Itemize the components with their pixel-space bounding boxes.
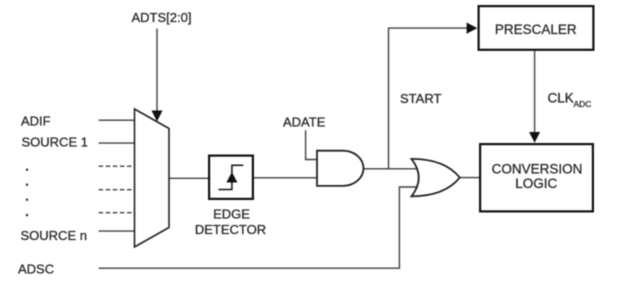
svg-text:SOURCE 1: SOURCE 1 bbox=[22, 135, 88, 150]
svg-text:ADSC: ADSC bbox=[18, 262, 54, 277]
svg-text:CLK: CLK bbox=[548, 90, 574, 105]
svg-text:EDGE: EDGE bbox=[213, 207, 250, 222]
svg-text:START: START bbox=[400, 91, 441, 106]
svg-text:SOURCE n: SOURCE n bbox=[21, 228, 87, 243]
svg-text:DETECTOR: DETECTOR bbox=[195, 222, 266, 237]
svg-text:LOGIC: LOGIC bbox=[515, 176, 557, 191]
svg-text:CONVERSION: CONVERSION bbox=[492, 161, 583, 176]
svg-text:ADIF: ADIF bbox=[21, 114, 51, 129]
svg-text:ADATE: ADATE bbox=[283, 115, 326, 130]
svg-text:ADTS[2:0]: ADTS[2:0] bbox=[132, 10, 192, 25]
svg-text:ADC: ADC bbox=[574, 99, 592, 109]
svg-text:PRESCALER: PRESCALER bbox=[495, 22, 577, 37]
